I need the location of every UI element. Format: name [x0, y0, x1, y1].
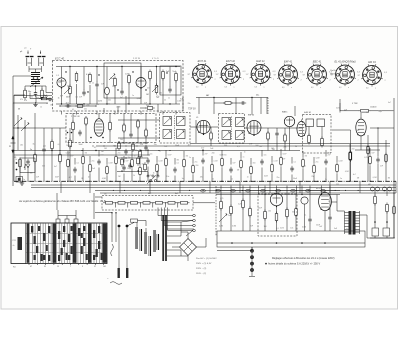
svg-text:0,1: 0,1 — [292, 169, 294, 171]
svg-text:20n: 20n — [28, 91, 31, 93]
svg-text:300: 300 — [328, 152, 331, 154]
svg-text:1k: 1k — [212, 179, 214, 181]
svg-text:50nF: 50nF — [220, 155, 224, 157]
svg-text:9: 9 — [82, 266, 83, 268]
svg-text:200: 200 — [195, 165, 198, 167]
svg-text:4a: 4a — [13, 245, 15, 247]
svg-text:1k: 1k — [325, 179, 327, 181]
svg-text:Pos HV + (1) 2x250V: Pos HV + (1) 2x250V — [196, 258, 217, 260]
svg-text:0,1: 0,1 — [304, 166, 306, 168]
svg-text:50nF: 50nF — [258, 208, 262, 210]
svg-text:1k: 1k — [15, 159, 17, 161]
svg-text:1k: 1k — [92, 82, 94, 84]
svg-text:1n: 1n — [247, 177, 249, 179]
svg-text:0,25: 0,25 — [220, 198, 223, 200]
svg-text:0,5M: 0,5M — [232, 225, 236, 227]
svg-text:EAF 41: EAF 41 — [256, 60, 265, 63]
svg-text:0,1M: 0,1M — [345, 171, 349, 173]
svg-text:0,5M: 0,5M — [214, 161, 218, 163]
svg-text:0,1M: 0,1M — [98, 101, 102, 103]
svg-text:47k: 47k — [24, 100, 27, 102]
svg-text:EABC: EABC — [282, 111, 288, 114]
svg-text:1k: 1k — [328, 201, 330, 203]
svg-text:200: 200 — [159, 93, 162, 95]
svg-text:0,1: 0,1 — [108, 104, 110, 106]
svg-text:300: 300 — [224, 145, 227, 147]
svg-text:1n: 1n — [243, 157, 245, 159]
svg-text:0,5M: 0,5M — [66, 153, 70, 155]
svg-text:0,5M: 0,5M — [109, 163, 113, 165]
svg-text:5nF: 5nF — [101, 84, 104, 86]
svg-text:300: 300 — [67, 85, 70, 87]
svg-text:xxx: xxx — [336, 183, 339, 185]
svg-text:4n7: 4n7 — [388, 102, 391, 104]
svg-text:Au sujet du schéma général ou: Au sujet du schéma général ou du châssis… — [18, 199, 99, 203]
svg-text:8uF: 8uF — [60, 96, 63, 98]
svg-text:2 TSF: 2 TSF — [351, 103, 358, 105]
svg-text:1n: 1n — [128, 143, 130, 145]
svg-text:22n: 22n — [140, 144, 143, 146]
svg-text:10n: 10n — [290, 227, 293, 229]
svg-text:4 TL 41: 4 TL 41 — [152, 58, 160, 60]
svg-text:1k: 1k — [133, 175, 135, 177]
svg-text:0,1: 0,1 — [86, 74, 89, 76]
svg-text:57: 57 — [94, 266, 96, 268]
svg-text:200: 200 — [352, 149, 355, 151]
svg-text:6,3: 6,3 — [255, 87, 257, 89]
svg-text:22n: 22n — [188, 103, 191, 105]
svg-text:1k: 1k — [32, 144, 34, 146]
svg-text:10n: 10n — [264, 155, 267, 157]
svg-text:0,5M: 0,5M — [302, 226, 306, 228]
svg-text:200: 200 — [36, 98, 39, 100]
svg-text:25n: 25n — [195, 162, 198, 164]
svg-text:4n7: 4n7 — [259, 146, 262, 148]
svg-text:25n: 25n — [316, 162, 319, 164]
svg-text:50nF: 50nF — [293, 178, 297, 180]
svg-text:8uF: 8uF — [256, 145, 259, 147]
svg-text:0,5M: 0,5M — [125, 74, 129, 76]
svg-text:110V ~ (2): 110V ~ (2) — [196, 273, 206, 275]
svg-text:101: 101 — [103, 266, 106, 268]
svg-text:4n7: 4n7 — [201, 147, 204, 149]
svg-text:25n: 25n — [43, 146, 46, 148]
svg-text:EL 41 (6AQ5 R6al): EL 41 (6AQ5 R6al) — [334, 60, 355, 63]
svg-text:0,1M: 0,1M — [336, 108, 340, 110]
svg-text:A: A — [9, 144, 11, 148]
svg-text:5nF: 5nF — [79, 97, 82, 99]
svg-text:1n: 1n — [182, 178, 184, 180]
svg-text:300: 300 — [253, 163, 256, 165]
svg-text:70pF: 70pF — [378, 111, 382, 113]
svg-text:100: 100 — [30, 172, 33, 174]
svg-text:2nF: 2nF — [58, 82, 61, 84]
svg-text:1n: 1n — [340, 178, 342, 180]
svg-text:6,3: 6,3 — [282, 87, 284, 89]
svg-text:0,1: 0,1 — [177, 163, 180, 165]
svg-text:200: 200 — [224, 155, 227, 157]
svg-text:a: a — [320, 87, 321, 89]
svg-text:0,5M: 0,5M — [137, 98, 141, 100]
svg-text:1 TSF 38: 1 TSF 38 — [71, 116, 80, 118]
svg-text:220V ~ (2): 220V ~ (2) — [196, 268, 207, 270]
svg-text:0,25: 0,25 — [364, 157, 367, 159]
svg-text:0,1: 0,1 — [94, 147, 97, 149]
svg-text:22n: 22n — [45, 96, 48, 98]
svg-text:1n: 1n — [132, 95, 134, 97]
svg-text:1k: 1k — [127, 168, 129, 170]
svg-text:4n7: 4n7 — [54, 166, 57, 168]
svg-text:1k: 1k — [40, 106, 42, 108]
svg-text:0,25: 0,25 — [238, 203, 241, 205]
svg-text:25n: 25n — [20, 144, 23, 146]
svg-text:1n: 1n — [164, 100, 166, 102]
svg-text:22n: 22n — [147, 88, 150, 90]
svg-text:4n7: 4n7 — [346, 228, 349, 230]
svg-text:10n: 10n — [108, 100, 111, 102]
svg-text:50nF: 50nF — [55, 177, 59, 179]
svg-text:P21: P21 — [13, 240, 16, 242]
svg-text:0,5M: 0,5M — [116, 107, 120, 109]
svg-text:ECH 42: ECH 42 — [226, 60, 235, 63]
svg-text:4n7: 4n7 — [353, 174, 356, 176]
svg-text:10n: 10n — [150, 154, 153, 156]
svg-text:1n: 1n — [134, 156, 136, 158]
svg-text:1k: 1k — [153, 173, 155, 175]
svg-text:1n: 1n — [244, 152, 246, 154]
svg-text:R4: R4 — [13, 267, 15, 269]
svg-text:EBF80: EBF80 — [248, 115, 255, 117]
svg-text:a: a — [291, 87, 292, 89]
svg-text:0,1: 0,1 — [58, 144, 61, 146]
svg-text:2.12 W: 2.12 W — [133, 58, 141, 60]
svg-text:0,1: 0,1 — [75, 97, 78, 99]
svg-text:6n: 6n — [46, 103, 48, 105]
svg-text:0,1M: 0,1M — [373, 177, 377, 179]
svg-text:5nF: 5nF — [101, 151, 104, 153]
svg-text:200: 200 — [120, 139, 123, 141]
svg-text:Chel 4ns: Chel 4ns — [330, 70, 337, 72]
svg-text:25n: 25n — [154, 144, 157, 146]
svg-text:25n: 25n — [92, 161, 95, 163]
svg-text:Ch: Ch — [104, 194, 106, 196]
svg-text:6,3: 6,3 — [196, 87, 198, 89]
svg-text:25n: 25n — [311, 176, 314, 178]
svg-text:0,1: 0,1 — [77, 163, 80, 165]
svg-text:300: 300 — [264, 226, 267, 228]
svg-text:0,1: 0,1 — [276, 228, 278, 230]
svg-text:EM 34: EM 34 — [368, 61, 376, 64]
svg-text:200: 200 — [112, 86, 115, 88]
svg-text:EAF 41: EAF 41 — [284, 60, 293, 63]
svg-text:EBC 41: EBC 41 — [313, 60, 322, 63]
svg-text:4n7: 4n7 — [188, 145, 191, 147]
svg-text:5nF: 5nF — [282, 159, 285, 161]
svg-text:50n: 50n — [135, 150, 138, 152]
svg-text:100: 100 — [30, 96, 33, 98]
svg-text:Réglages effectués à Bruxelles: Réglages effectués à Bruxelles les 24-1 … — [272, 257, 335, 260]
svg-text:0,1M: 0,1M — [274, 161, 278, 163]
svg-text:0,1M: 0,1M — [280, 228, 284, 230]
svg-text:10n: 10n — [166, 176, 169, 178]
svg-text:0,1: 0,1 — [294, 162, 297, 164]
svg-text:1n: 1n — [168, 98, 170, 100]
svg-text:0,5M: 0,5M — [102, 178, 106, 180]
svg-text:25n: 25n — [283, 146, 286, 148]
svg-text:300: 300 — [42, 165, 45, 167]
svg-text:6,3: 6,3 — [311, 87, 313, 89]
svg-text:10n: 10n — [366, 112, 369, 114]
svg-text:4n7: 4n7 — [69, 177, 72, 179]
svg-text:2nF: 2nF — [380, 165, 383, 167]
svg-text:1k: 1k — [58, 97, 60, 99]
svg-text:200: 200 — [118, 153, 121, 155]
svg-text:47k: 47k — [20, 99, 23, 101]
svg-text:2nF: 2nF — [228, 215, 231, 217]
svg-text:TSF 38: TSF 38 — [188, 109, 196, 111]
svg-text:7: 7 — [70, 266, 71, 268]
svg-text:2nF: 2nF — [344, 109, 347, 111]
svg-text:100: 100 — [268, 210, 271, 212]
svg-text:2nF: 2nF — [92, 168, 95, 170]
svg-text:ECH 41: ECH 41 — [198, 60, 207, 63]
svg-text:1M: 1M — [146, 94, 149, 96]
svg-text:0,1: 0,1 — [248, 215, 250, 217]
svg-text:0,5M: 0,5M — [219, 225, 223, 227]
svg-text:a: a — [264, 87, 265, 89]
svg-text:a: a — [348, 87, 349, 89]
svg-text:500: 500 — [136, 84, 139, 86]
svg-text:0,1M: 0,1M — [264, 176, 268, 178]
svg-text:250V + (1) 6,3V: 250V + (1) 6,3V — [196, 263, 212, 265]
svg-text:200: 200 — [146, 105, 149, 107]
svg-text:22n: 22n — [150, 175, 153, 177]
svg-text:25n: 25n — [276, 177, 279, 179]
svg-text:2nF: 2nF — [250, 226, 253, 228]
svg-text:70pF: 70pF — [172, 71, 176, 73]
svg-text:200: 200 — [86, 105, 89, 107]
svg-text:31: 31 — [44, 266, 46, 268]
svg-text:EAF 41: EAF 41 — [304, 111, 312, 114]
svg-text:Autres détails du schéma S.A.2: Autres détails du schéma S.A.220/LV +/- … — [268, 263, 320, 266]
svg-text:1n: 1n — [231, 179, 233, 181]
svg-text:4n7: 4n7 — [66, 103, 69, 105]
svg-text:25n: 25n — [84, 109, 87, 111]
svg-text:a: a — [234, 87, 235, 89]
svg-text:0,1M: 0,1M — [159, 161, 163, 163]
svg-text:4n7: 4n7 — [319, 226, 322, 228]
svg-text:47: 47 — [30, 266, 32, 268]
svg-text:6,3: 6,3 — [225, 87, 227, 89]
svg-text:2M2: 2M2 — [356, 130, 359, 132]
svg-text:47k: 47k — [115, 148, 118, 150]
svg-text:CX4/20: CX4/20 — [370, 107, 376, 109]
svg-text:200: 200 — [212, 152, 215, 154]
svg-text:0,1M: 0,1M — [177, 100, 181, 102]
svg-text:0,1: 0,1 — [237, 146, 240, 148]
svg-text:5nF: 5nF — [334, 228, 337, 230]
svg-text:a: a — [205, 87, 206, 89]
svg-text:ECC 40: ECC 40 — [55, 57, 65, 61]
svg-text:4n7: 4n7 — [156, 97, 159, 99]
svg-text:6,3: 6,3 — [339, 87, 341, 89]
svg-text:0,1: 0,1 — [304, 215, 306, 217]
svg-text:1n: 1n — [23, 179, 25, 181]
svg-text:0,5M: 0,5M — [339, 161, 343, 163]
svg-text:0,1: 0,1 — [72, 109, 74, 111]
svg-text:1n: 1n — [189, 157, 191, 159]
svg-text:22n: 22n — [127, 104, 130, 106]
svg-text:a: a — [375, 88, 376, 90]
svg-text:NBS 6ns: NBS 6ns — [330, 74, 337, 76]
svg-text:6,3: 6,3 — [366, 88, 368, 90]
svg-text:47k: 47k — [200, 176, 203, 178]
svg-text:1n: 1n — [88, 177, 90, 179]
svg-text:2nF: 2nF — [36, 177, 39, 179]
svg-text:15: 15 — [57, 266, 59, 268]
svg-text:0,5M: 0,5M — [316, 158, 320, 160]
